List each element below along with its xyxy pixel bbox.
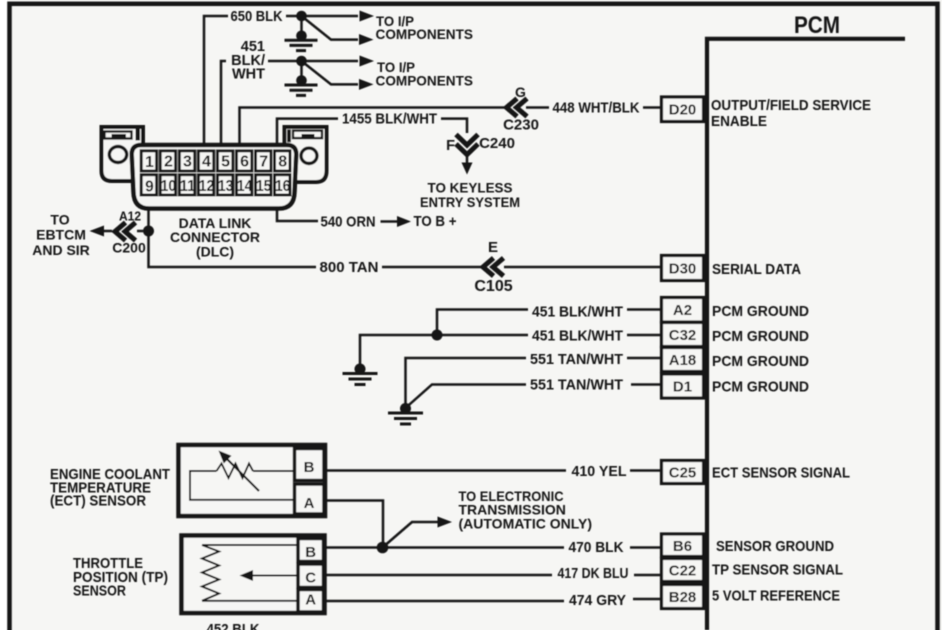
svg-text:9: 9	[145, 178, 154, 195]
svg-text:1455 BLK/WHT: 1455 BLK/WHT	[342, 111, 437, 128]
label TO KEYLESS ENTRY SYSTEM	[420, 180, 520, 210]
DLC caption	[170, 215, 260, 260]
connector C230 chevron G	[507, 99, 528, 117]
svg-text:12: 12	[199, 178, 215, 195]
DLC pin cells row 2 (pins 9-16)	[141, 175, 290, 195]
svg-text:5: 5	[221, 154, 230, 171]
svg-text:C32: C32	[669, 327, 697, 344]
svg-text:OUTPUT/FIELD SERVICE: OUTPUT/FIELD SERVICE	[711, 97, 871, 114]
arrow down to keyless entry	[466, 156, 469, 164]
svg-text:A2: A2	[673, 302, 692, 319]
DLC connector right ear	[285, 127, 327, 182]
connector C200 chevron A12	[115, 223, 136, 241]
wire 551 TAN/WHT to D1	[406, 385, 527, 409]
label 451 BLK/WHT (3 lines)	[231, 39, 265, 83]
svg-text:D1: D1	[673, 379, 692, 396]
terminal D30	[662, 256, 704, 281]
label TO ELECTRONIC TRANSMISSION (AUTOMATIC ONLY)	[459, 488, 593, 532]
terminal B28	[662, 585, 704, 609]
svg-text:F: F	[446, 138, 455, 154]
PCM box	[707, 12, 905, 630]
ECT variable arrow	[226, 458, 259, 491]
svg-text:A: A	[304, 495, 315, 512]
TP internal top wire	[202, 544, 298, 546]
ground node dot (right)	[400, 403, 411, 414]
DLC connector body	[132, 145, 297, 209]
svg-text:SENSOR: SENSOR	[73, 583, 126, 600]
ground 1	[285, 40, 318, 50]
junction node on 451 wire	[296, 56, 307, 67]
svg-text:5 VOLT REFERENCE: 5 VOLT REFERENCE	[712, 588, 840, 605]
wire junction drop to ground 1	[300, 16, 303, 36]
ECT pin A cell	[295, 484, 325, 514]
svg-text:(AUTOMATIC ONLY): (AUTOMATIC ONLY)	[459, 516, 593, 532]
label TO I/P COMPONENTS (upper)	[376, 14, 474, 42]
wire 451 BLK/WHT to C32	[360, 335, 528, 369]
svg-text:410 YEL: 410 YEL	[572, 463, 627, 480]
svg-text:B28: B28	[669, 589, 697, 606]
svg-text:(ECT) SENSOR: (ECT) SENSOR	[50, 493, 146, 510]
TP sensor label	[73, 555, 168, 600]
svg-text:WHT: WHT	[232, 67, 265, 83]
arrow to EBTCM	[90, 226, 105, 237]
svg-text:COMPONENTS: COMPONENTS	[376, 27, 474, 42]
terminal D20	[662, 97, 704, 122]
svg-text:13: 13	[218, 178, 234, 195]
TP pin A cell	[298, 590, 324, 613]
svg-text:452 BLK: 452 BLK	[207, 622, 260, 630]
DLC connector left ear	[102, 127, 144, 181]
label OUTPUT/FIELD SERVICE ENABLE	[711, 97, 871, 130]
wire 470 BLK to B6	[324, 546, 565, 549]
TP sensor box	[182, 536, 325, 614]
DLC pin numbers row 1	[145, 154, 287, 172]
ground 4	[388, 413, 423, 424]
junction drop to ground 2	[300, 61, 303, 81]
svg-text:TP SENSOR SIGNAL: TP SENSOR SIGNAL	[712, 562, 843, 579]
ground 3	[343, 374, 378, 385]
svg-text:PCM GROUND: PCM GROUND	[712, 328, 809, 345]
wire junction to C200 chevron	[137, 230, 143, 233]
ground 2	[285, 85, 318, 95]
svg-text:C22: C22	[669, 563, 697, 580]
diagonal branch to I/P components (lower)	[304, 18, 358, 40]
arrow to I/P components (top)	[360, 56, 375, 67]
wire 800 TAN to D30	[149, 231, 317, 267]
svg-text:451 BLK/WHT: 451 BLK/WHT	[532, 328, 623, 345]
ECT pin B cell	[295, 449, 325, 481]
DLC pin numbers row 2	[145, 178, 291, 196]
svg-text:650 BLK: 650 BLK	[231, 9, 283, 25]
svg-text:(DLC): (DLC)	[196, 244, 234, 260]
svg-text:C105: C105	[474, 278, 512, 295]
TP resistor zigzag	[202, 545, 219, 601]
arrow to B+	[397, 216, 411, 227]
TP wiper arrow	[252, 575, 298, 577]
wire 410 YEL to C25	[324, 469, 566, 472]
svg-text:A12: A12	[119, 209, 141, 224]
svg-text:AND SIR: AND SIR	[32, 242, 90, 258]
ECT internal wires	[190, 471, 295, 500]
svg-text:2: 2	[164, 154, 173, 171]
svg-text:D30: D30	[669, 261, 697, 278]
svg-text:C230: C230	[503, 117, 539, 134]
svg-text:540 ORN: 540 ORN	[321, 214, 376, 231]
diagonal branch to I/P components (lower)	[304, 63, 358, 84]
svg-text:451 BLK/WHT: 451 BLK/WHT	[532, 304, 623, 321]
svg-text:448 WHT/BLK: 448 WHT/BLK	[553, 100, 640, 117]
svg-text:C: C	[305, 570, 316, 587]
svg-text:4: 4	[202, 154, 211, 171]
svg-text:800 TAN: 800 TAN	[320, 259, 379, 276]
svg-text:B6: B6	[673, 538, 692, 555]
ECT sensor label	[50, 466, 170, 510]
wire chevron to arrow	[104, 230, 112, 233]
junction node A12	[143, 226, 154, 237]
DLC pin cells row 1 (pins 1-8)	[141, 151, 290, 171]
label TO I/P COMPONENTS (lower)	[376, 60, 474, 88]
svg-text:G: G	[515, 84, 526, 100]
svg-text:3: 3	[183, 154, 192, 171]
svg-text:6: 6	[240, 154, 249, 171]
wire 451 BLK/WHT to A2	[437, 310, 528, 336]
wire from DLC to A12 junction	[147, 209, 150, 232]
svg-text:B: B	[304, 459, 315, 476]
terminal D1	[662, 374, 704, 398]
svg-text:474 GRY: 474 GRY	[569, 592, 626, 609]
terminal A18	[662, 348, 704, 372]
label TO EBTCM AND SIR	[32, 212, 90, 259]
wire 540 ORN to B+	[277, 209, 318, 222]
svg-text:551 TAN/WHT: 551 TAN/WHT	[530, 376, 623, 393]
svg-text:EBTCM: EBTCM	[36, 227, 86, 243]
svg-text:TO: TO	[50, 212, 69, 228]
svg-text:16: 16	[275, 178, 291, 195]
svg-text:15: 15	[256, 178, 272, 195]
terminal C22	[662, 559, 704, 582]
svg-text:COMPONENTS: COMPONENTS	[376, 73, 474, 88]
svg-text:A18: A18	[669, 352, 697, 369]
junction node on 650 BLK	[296, 11, 307, 22]
svg-text:PCM GROUND: PCM GROUND	[712, 379, 809, 396]
wire 650 BLK from pin 4	[204, 16, 228, 145]
svg-text:ECT SENSOR SIGNAL: ECT SENSOR SIGNAL	[712, 465, 850, 482]
junction node on C32 wire	[432, 330, 443, 341]
svg-text:551 TAN/WHT: 551 TAN/WHT	[530, 351, 623, 368]
terminal C25	[662, 461, 704, 484]
terminal C32	[662, 323, 704, 347]
svg-text:C200: C200	[112, 240, 146, 256]
svg-text:C25: C25	[669, 465, 697, 482]
svg-text:ENABLE: ENABLE	[711, 113, 767, 130]
svg-text:417 DK BLU: 417 DK BLU	[558, 565, 629, 582]
terminal A2	[662, 298, 704, 323]
ECT sensor box	[179, 445, 326, 516]
svg-text:SERIAL DATA: SERIAL DATA	[712, 261, 801, 278]
arrow to I/P components (top)	[360, 11, 375, 22]
wire 474 GRY to B28	[324, 600, 565, 603]
svg-text:7: 7	[259, 154, 268, 171]
junction node on 470 BLK	[377, 542, 389, 554]
svg-text:D20: D20	[669, 102, 697, 119]
svg-text:11: 11	[180, 178, 196, 195]
connector C105 chevron E	[483, 258, 504, 276]
svg-text:PCM: PCM	[794, 12, 840, 39]
connector C240 chevron F	[456, 135, 478, 155]
branch arrow to electronic transmission	[383, 522, 440, 548]
wire ECT A to junction	[324, 501, 383, 548]
wire 1455 BLK/WHT pin 8	[277, 119, 338, 143]
wire 451 BLK/WHT from pin 5	[221, 61, 226, 145]
svg-text:C240: C240	[479, 135, 515, 152]
svg-text:ENTRY SYSTEM: ENTRY SYSTEM	[420, 194, 520, 210]
svg-text:470 BLK: 470 BLK	[569, 539, 624, 556]
svg-text:E: E	[488, 239, 498, 256]
svg-text:PCM GROUND: PCM GROUND	[712, 303, 809, 320]
svg-text:8: 8	[278, 154, 287, 171]
wire 448 WHT/BLK pin 6 to D20	[240, 108, 505, 146]
svg-text:B: B	[305, 544, 316, 561]
terminal B6	[662, 534, 704, 557]
svg-text:10: 10	[161, 178, 177, 195]
svg-text:A: A	[305, 592, 316, 609]
ECT thermistor zigzag	[217, 464, 254, 479]
svg-text:TO B +: TO B +	[414, 214, 457, 230]
TP internal bottom wire	[202, 600, 298, 602]
ground node dot (left)	[355, 364, 366, 375]
svg-text:14: 14	[237, 178, 253, 195]
svg-text:SENSOR GROUND: SENSOR GROUND	[716, 538, 834, 555]
wire 551 TAN/WHT to A18	[406, 358, 527, 408]
svg-text:PCM GROUND: PCM GROUND	[712, 353, 809, 370]
TP pin B cell	[298, 539, 324, 562]
TP pin C cell	[298, 564, 324, 588]
wire 417 DK BLU to C22	[324, 574, 553, 577]
svg-text:1: 1	[145, 154, 154, 171]
